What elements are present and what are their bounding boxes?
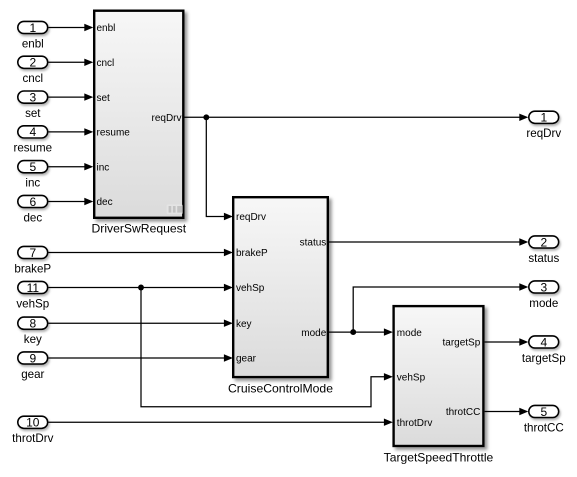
svg-text:dec: dec (97, 197, 113, 208)
svg-text:throtCC: throtCC (446, 407, 480, 418)
outport 3 mode (529, 280, 559, 310)
svg-text:10: 10 (26, 416, 40, 430)
inport 11 vehSp (16, 281, 49, 311)
svg-text:status: status (300, 238, 327, 249)
wire reqDrv to outport 1 (185, 114, 529, 121)
wire reqDrv branch to CruiseControlMode (206, 117, 233, 220)
wire mode to TargetSpeedThrottle (329, 328, 393, 335)
svg-text:DriverSwRequest: DriverSwRequest (92, 221, 187, 235)
wire cncl to DriverSwRequest (49, 59, 94, 66)
svg-text:inc: inc (97, 162, 110, 173)
svg-text:TargetSpeedThrottle: TargetSpeedThrottle (384, 451, 494, 465)
subsystem CruiseControlMode (233, 197, 328, 377)
wire vehSp to CruiseControlMode (49, 284, 233, 291)
subsystem DriverSwRequest (94, 11, 183, 218)
junction vehSp branch (138, 285, 144, 291)
svg-text:1: 1 (29, 21, 36, 35)
svg-text:cncl: cncl (97, 58, 115, 69)
inport 5 inc (18, 160, 48, 190)
svg-text:brakeP: brakeP (14, 262, 51, 275)
library-link badge on DriverSwRequest (167, 204, 183, 214)
wire throtCC to outport 5 (485, 408, 529, 415)
svg-text:set: set (97, 93, 111, 104)
wire key to CruiseControlMode (49, 320, 233, 327)
inport 4 resume (13, 125, 52, 155)
wire set to DriverSwRequest (49, 93, 94, 100)
svg-text:throtDrv: throtDrv (397, 418, 433, 429)
wire status to outport 2 (329, 238, 528, 245)
svg-text:status: status (528, 252, 559, 265)
wire targetSp to outport 4 (485, 338, 529, 345)
svg-text:targetSp: targetSp (522, 352, 566, 365)
svg-text:6: 6 (29, 195, 36, 209)
svg-text:inc: inc (25, 177, 40, 190)
svg-text:throtCC: throtCC (524, 421, 564, 434)
wire inc to DriverSwRequest (49, 163, 94, 170)
inport 7 brakeP (14, 246, 51, 276)
svg-text:mode: mode (529, 297, 558, 310)
inport 6 dec (18, 195, 48, 225)
outport 1 reqDrv (526, 111, 561, 141)
wire vehSp branch to TargetSpeedThrottle (141, 288, 393, 407)
svg-text:reqDrv: reqDrv (236, 212, 266, 223)
svg-text:set: set (25, 107, 41, 120)
outport 5 throtCC (524, 405, 564, 435)
svg-text:vehSp: vehSp (16, 297, 49, 310)
svg-text:dec: dec (23, 211, 42, 224)
svg-text:5: 5 (29, 160, 36, 174)
inport 8 key (18, 317, 48, 347)
svg-text:throtDrv: throtDrv (12, 432, 53, 445)
wire throtDrv to TargetSpeedThrottle (49, 419, 393, 426)
svg-text:mode: mode (397, 328, 422, 339)
svg-text:4: 4 (29, 125, 36, 139)
svg-text:5: 5 (540, 405, 547, 419)
svg-text:reqDrv: reqDrv (526, 127, 561, 140)
svg-text:11: 11 (27, 281, 40, 295)
wire brakeP to CruiseControlMode (49, 249, 233, 256)
svg-text:mode: mode (301, 328, 326, 339)
svg-text:2: 2 (29, 56, 36, 70)
outport 4 targetSp (522, 335, 566, 365)
svg-text:targetSp: targetSp (442, 338, 480, 349)
svg-text:resume: resume (13, 142, 52, 155)
svg-text:resume: resume (97, 128, 131, 139)
svg-text:cncl: cncl (22, 72, 43, 85)
inport 2 cncl (18, 56, 48, 86)
inport 9 gear (18, 351, 48, 381)
svg-text:1: 1 (540, 111, 547, 125)
inport 1 enbl (18, 21, 48, 51)
svg-text:CruiseControlMode: CruiseControlMode (228, 382, 333, 396)
svg-text:7: 7 (29, 246, 36, 260)
svg-text:enbl: enbl (22, 37, 44, 50)
svg-text:3: 3 (540, 280, 547, 294)
svg-text:gear: gear (236, 354, 257, 365)
svg-text:brakeP: brakeP (236, 248, 268, 259)
svg-text:vehSp: vehSp (236, 283, 265, 294)
svg-text:vehSp: vehSp (397, 373, 426, 384)
svg-text:2: 2 (540, 235, 547, 249)
wire dec to DriverSwRequest (49, 198, 94, 205)
svg-text:reqDrv: reqDrv (151, 113, 181, 124)
svg-text:3: 3 (29, 90, 36, 104)
wire gear to CruiseControlMode (49, 354, 233, 361)
wire enbl to DriverSwRequest (49, 24, 94, 31)
inport 10 throtDrv (12, 416, 53, 446)
junction mode branch (350, 329, 356, 335)
outport 2 status (528, 235, 559, 264)
subsystem TargetSpeedThrottle (394, 306, 484, 446)
wire resume to DriverSwRequest (49, 128, 94, 135)
svg-text:4: 4 (540, 335, 547, 349)
wire mode branch to outport 3 (353, 283, 528, 332)
svg-text:enbl: enbl (97, 23, 116, 34)
svg-text:key: key (236, 319, 252, 330)
svg-text:9: 9 (29, 351, 36, 365)
inport 3 set (18, 90, 48, 120)
svg-text:key: key (24, 333, 42, 346)
svg-text:8: 8 (29, 317, 36, 331)
junction reqDrv branch (203, 114, 209, 120)
svg-text:gear: gear (21, 368, 44, 381)
